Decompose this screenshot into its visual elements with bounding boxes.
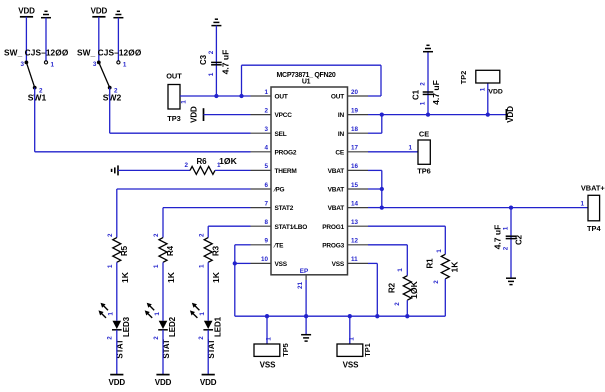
junction node OUT at loop (239, 94, 243, 98)
svg-text:2: 2 (198, 336, 205, 340)
junction rail EP (304, 314, 308, 318)
wire OUT loop down (380, 65, 382, 96)
pin 14 stub (348, 207, 369, 209)
svg-text:VDD: VDD (190, 106, 199, 123)
wire SW2 pin2 down (109, 88, 111, 134)
svg-text:2: 2 (107, 233, 114, 237)
ground (C3 top) (211, 25, 221, 27)
svg-text:VPCC: VPCC (275, 112, 293, 119)
svg-text:1: 1 (198, 264, 205, 268)
svg-text:8: 8 (264, 219, 268, 226)
wire ground to SW2 pin1 (117, 18, 119, 61)
svg-text:VBAT+: VBAT+ (581, 184, 605, 193)
svg-text:4.7 uF: 4.7 uF (431, 80, 441, 105)
wire VSS pin11 (368, 262, 377, 264)
wire R4 to LED2 (162, 262, 164, 320)
svg-text:1: 1 (108, 312, 115, 316)
svg-text:6: 6 (264, 182, 268, 189)
wire VBAT vertical (381, 170, 383, 207)
svg-text:SW_ CJS–12ØØ: SW_ CJS–12ØØ (77, 48, 142, 58)
junction IN pins (380, 112, 384, 116)
svg-text:CE: CE (335, 149, 344, 156)
resistor R2 (403, 276, 411, 301)
wire VDD to SW2 pin3 (98, 17, 100, 63)
switch SW1 pin 2 (33, 86, 37, 90)
switch SW2 pin 2 (108, 86, 112, 90)
wire CE to TP6 (368, 151, 418, 153)
svg-text:VBAT: VBAT (328, 168, 345, 175)
pin 3 stub (251, 132, 272, 134)
ground (THERM) (117, 165, 119, 175)
pin 1 stub (251, 95, 272, 97)
svg-text:TP1: TP1 (363, 343, 372, 357)
svg-text:VDD: VDD (109, 378, 126, 387)
wire R4 top (162, 208, 164, 238)
svg-text:19: 19 (351, 107, 359, 114)
wire R5 top (116, 189, 118, 238)
wire R1 top (444, 226, 446, 254)
svg-text:15: 15 (351, 182, 359, 189)
wire VDD to VPCC (204, 114, 251, 116)
wire VBAT pin14 (368, 207, 382, 209)
svg-text:1: 1 (208, 72, 215, 76)
ground (EP) (301, 334, 311, 336)
svg-text:LED3: LED3 (122, 316, 131, 337)
wire VSS pin10 (235, 262, 251, 264)
switch SW1 lever (26, 62, 34, 87)
pin 12 stub (348, 244, 369, 246)
wire EP ground stem (305, 316, 307, 335)
svg-text:1: 1 (502, 226, 509, 230)
svg-text:1: 1 (154, 312, 161, 316)
svg-text:TP5: TP5 (281, 343, 290, 357)
wire U1 to R4 (163, 207, 251, 209)
wire U1 to R5 (117, 188, 251, 190)
wire U1 to R3 (208, 225, 250, 227)
svg-text:1: 1 (397, 268, 404, 272)
svg-text:1: 1 (408, 145, 412, 152)
junction rail R2 (405, 314, 409, 318)
junction VBAT pin14 (380, 205, 384, 209)
svg-text:1K: 1K (211, 271, 221, 283)
svg-text:17: 17 (351, 145, 359, 152)
junction IN at TP2 (486, 112, 490, 116)
wire C1 to IN (427, 52, 429, 115)
svg-text:1: 1 (436, 249, 443, 253)
pin 6 stub (251, 188, 272, 190)
testpoint TP4 (588, 195, 600, 221)
wire /TE down (234, 245, 236, 316)
wire TP3 to U1 pin1 (180, 95, 251, 97)
svg-text:C2: C2 (515, 234, 524, 245)
svg-text:2: 2 (433, 280, 440, 284)
wire VDD to SW1 pin3 (25, 17, 27, 63)
switch SW1 pin 3 (25, 61, 29, 65)
wire PROG1 (368, 225, 445, 227)
capacitor C3 (211, 61, 222, 63)
svg-text:2: 2 (502, 246, 509, 250)
LED LED3 (113, 321, 122, 329)
pin 7 stub (251, 207, 272, 209)
svg-text:1: 1 (107, 264, 114, 268)
svg-text:C1: C1 (412, 89, 421, 100)
svg-text:STAT1∕LBO: STAT1∕LBO (275, 224, 308, 231)
svg-text:R5: R5 (120, 245, 129, 256)
wire LED3 to VDD (116, 330, 118, 375)
op-amp U1 body (271, 87, 348, 275)
svg-text:4.7 uF: 4.7 uF (221, 50, 231, 75)
svg-text:R1: R1 (425, 258, 434, 269)
svg-text:PROG2: PROG2 (275, 149, 297, 156)
svg-text:11: 11 (351, 256, 358, 263)
wire OUT loop up (241, 65, 243, 96)
svg-text:1: 1 (348, 337, 355, 341)
junction rail TP1 (348, 314, 352, 318)
LED LED3 arrows (103, 305, 108, 310)
svg-text:1: 1 (51, 62, 55, 69)
svg-text:1: 1 (479, 87, 486, 91)
wire SW1 to PROG2 (35, 151, 251, 153)
svg-text:VSS: VSS (332, 261, 345, 268)
svg-text:21: 21 (297, 282, 304, 290)
svg-text:2: 2 (153, 233, 160, 237)
wire EP to VSS rail (305, 280, 307, 316)
svg-text:∕TE: ∕TE (273, 242, 285, 249)
junction IN at C1 (426, 112, 430, 116)
pin 17 stub (348, 151, 369, 153)
svg-text:IN: IN (338, 131, 345, 138)
svg-text:VBAT: VBAT (328, 205, 345, 212)
svg-text:OUT: OUT (275, 94, 288, 101)
pin 11 stub (348, 262, 369, 264)
switch SW2 pin 1 (117, 61, 120, 64)
testpoint TP3 (168, 85, 180, 110)
svg-text:3: 3 (20, 61, 24, 68)
svg-text:1K: 1K (120, 271, 130, 283)
switch SW2 lever (99, 62, 110, 87)
svg-text:2: 2 (153, 336, 160, 340)
svg-text:20: 20 (351, 89, 359, 96)
wire R2 top (406, 245, 408, 276)
junction VBAT at C2 (509, 205, 513, 209)
resistor R1 (441, 254, 449, 278)
svg-text:VDD: VDD (506, 106, 515, 123)
wire VSS pin11 down (376, 263, 378, 316)
svg-text:1: 1 (217, 162, 221, 169)
ground (C1 top) (423, 51, 433, 53)
svg-text:OUT: OUT (331, 94, 344, 101)
svg-text:VDD: VDD (91, 7, 108, 16)
svg-text:VSS: VSS (260, 361, 276, 370)
svg-text:TP2: TP2 (459, 71, 468, 85)
wire R5 to LED3 (116, 262, 118, 320)
svg-text:2: 2 (198, 233, 205, 237)
wire OUT loop to pin20 (368, 95, 381, 97)
wire IN net (368, 114, 506, 116)
svg-text:2: 2 (394, 302, 401, 306)
wire TP1 stem (349, 316, 351, 344)
pin 9 stub (251, 244, 272, 246)
pin 10 stub (251, 262, 272, 264)
svg-text:IN: IN (338, 112, 345, 119)
testpoint TP2 (476, 70, 500, 83)
svg-text:SW2: SW2 (103, 93, 122, 103)
resistor R3 (204, 238, 212, 263)
svg-text:R4: R4 (166, 245, 175, 256)
capacitor C1 (423, 91, 434, 93)
wire SW1 pin2 down (34, 88, 36, 152)
LED LED1 arrows (194, 305, 199, 310)
svg-text:VBAT: VBAT (328, 187, 345, 194)
svg-text:1: 1 (123, 62, 127, 69)
wire PROG3 (368, 244, 407, 246)
pin 4 stub (251, 151, 272, 153)
svg-text:1: 1 (199, 312, 206, 316)
junction rail pin11 (375, 314, 379, 318)
svg-text:PROG3: PROG3 (322, 242, 344, 249)
pin 13 stub (348, 225, 369, 227)
svg-text:1: 1 (153, 264, 160, 268)
testpoint TP5 (254, 344, 280, 356)
svg-text:VDD: VDD (155, 378, 172, 387)
wire VBAT pin16 (368, 169, 382, 171)
wire R3 to LED1 (207, 262, 209, 320)
svg-text:9: 9 (264, 238, 268, 245)
svg-text:VDD: VDD (200, 378, 217, 387)
wire pin18 (368, 132, 382, 134)
svg-text:OUT: OUT (166, 72, 182, 81)
svg-text:CE: CE (419, 130, 429, 139)
svg-text:EP: EP (300, 268, 308, 275)
wire LED1 to VDD (207, 330, 209, 375)
junction node OUT at C3 (214, 94, 218, 98)
resistor R5 (113, 238, 121, 263)
svg-text:VSS: VSS (275, 261, 288, 268)
svg-text:SEL: SEL (275, 131, 287, 138)
pin 15 stub (348, 188, 369, 190)
svg-text:10: 10 (261, 256, 269, 263)
power symbol VDD (IN) (505, 109, 507, 120)
power symbol VDD (LED1) (202, 374, 215, 376)
wire pin18 up (381, 115, 383, 134)
pin 19 stub (348, 114, 369, 116)
svg-text:7: 7 (264, 200, 268, 207)
svg-text:R2: R2 (388, 282, 397, 293)
svg-text:∕PG: ∕PG (273, 187, 285, 194)
wire R3 top (207, 226, 209, 237)
testpoint TP1 (337, 344, 363, 356)
resistor R4 (159, 238, 167, 263)
svg-text:1K: 1K (449, 261, 459, 273)
power symbol VDD (LED2) (156, 374, 169, 376)
svg-text:R3: R3 (211, 245, 220, 256)
LED LED2 (159, 321, 168, 329)
svg-text:5: 5 (264, 163, 268, 170)
pin 20 stub (348, 95, 369, 97)
pin 18 stub (348, 132, 369, 134)
svg-text:2: 2 (107, 336, 114, 340)
wire ground to R6 (118, 169, 190, 171)
ground (SW2 pin1) (113, 17, 123, 19)
svg-text:1: 1 (420, 101, 427, 105)
testpoint TP6 (418, 140, 430, 164)
wire TP5 stem (266, 316, 268, 344)
svg-text:2: 2 (184, 162, 188, 169)
wire OUT loop top (242, 64, 382, 66)
LED LED1 (204, 321, 213, 329)
svg-text:SW_ CJS–12ØØ: SW_ CJS–12ØØ (4, 48, 69, 58)
wire R2 bottom (406, 300, 408, 316)
power symbol VDD (LED3) (110, 374, 123, 376)
resistor R6 (190, 166, 215, 174)
wire LED2 to VDD (162, 330, 164, 375)
svg-text:2: 2 (208, 50, 215, 54)
svg-text:LED1: LED1 (213, 316, 222, 337)
svg-text:VSS: VSS (343, 361, 359, 370)
svg-text:1: 1 (266, 337, 273, 341)
wire ground to C3 (215, 26, 217, 96)
svg-text:VDD: VDD (18, 7, 35, 16)
wire VBAT+ to TP4 (382, 207, 588, 209)
pin 21 stub (305, 275, 307, 280)
svg-text:4: 4 (264, 145, 268, 152)
svg-text:THERM: THERM (275, 168, 297, 175)
svg-text:2: 2 (420, 82, 427, 86)
svg-text:TP4: TP4 (587, 224, 601, 233)
svg-text:TP6: TP6 (417, 167, 431, 176)
wire TP2 down (487, 83, 489, 115)
wire SW2 to SEL (110, 132, 251, 134)
svg-text:3: 3 (93, 61, 97, 68)
pin 8 stub (251, 225, 272, 227)
svg-text:1: 1 (580, 201, 584, 208)
svg-text:14: 14 (351, 200, 359, 207)
svg-text:16: 16 (351, 163, 359, 170)
ground (C2 bottom) (506, 277, 516, 279)
svg-text:TP3: TP3 (167, 114, 181, 123)
svg-text:1K: 1K (166, 271, 176, 283)
pin 2 stub (251, 114, 272, 116)
switch SW1 pin 1 (44, 61, 47, 64)
wire VBAT pin15 (368, 188, 382, 190)
wire /TE (235, 244, 251, 246)
pin 16 stub (348, 169, 369, 171)
svg-text:U1: U1 (302, 79, 311, 86)
svg-text:VDD: VDD (488, 89, 502, 96)
svg-text:PROG1: PROG1 (322, 224, 344, 231)
junction rail TP5 (265, 314, 269, 318)
svg-text:1ØK: 1ØK (219, 156, 237, 166)
svg-text:1ØK: 1ØK (409, 280, 419, 298)
junction /TE-VSS (233, 261, 237, 265)
wire R1 bottom (444, 279, 446, 316)
LED LED2 arrows (149, 305, 154, 310)
wire VSS rail (235, 315, 445, 317)
wire C2 top (510, 208, 512, 279)
wire R6 to THERM (215, 169, 251, 171)
svg-text:12: 12 (351, 238, 359, 245)
wire ground to SW1 pin1 (45, 18, 47, 61)
svg-text:C3: C3 (199, 54, 208, 65)
capacitor C2 (506, 235, 517, 237)
svg-text:STAT2: STAT2 (275, 205, 294, 212)
svg-text:18: 18 (351, 126, 359, 133)
junction VBAT pin15 (380, 187, 384, 191)
svg-text:4.7 uF: 4.7 uF (493, 225, 503, 250)
pin 5 stub (251, 169, 272, 171)
svg-text:R6: R6 (196, 157, 207, 166)
switch SW2 pin 3 (97, 61, 101, 65)
svg-text:2: 2 (264, 107, 268, 114)
svg-text:SW1: SW1 (28, 93, 47, 103)
ground (SW1 pin1) (41, 17, 51, 19)
svg-text:3: 3 (264, 126, 268, 133)
svg-text:1: 1 (181, 100, 188, 104)
svg-text:1: 1 (264, 89, 268, 96)
svg-text:LED2: LED2 (168, 316, 177, 337)
svg-text:13: 13 (351, 219, 359, 226)
